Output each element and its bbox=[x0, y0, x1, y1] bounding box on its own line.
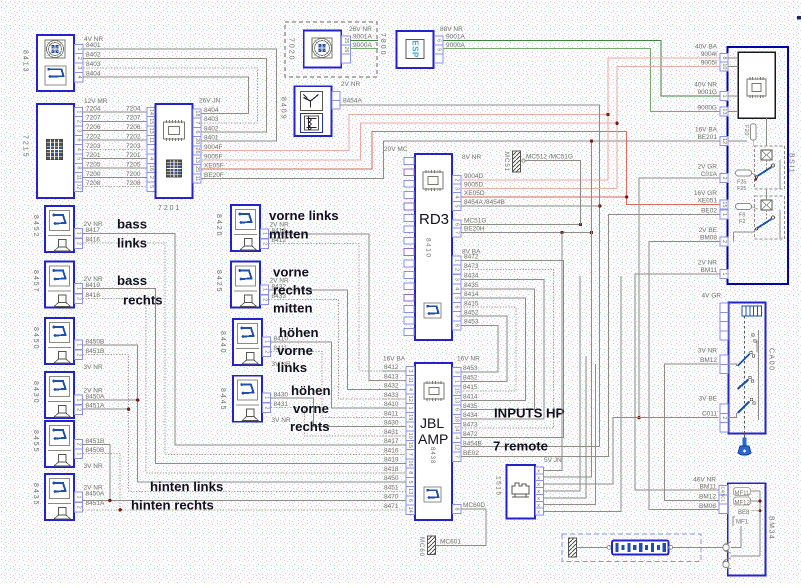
CA00 switch blades bbox=[738, 334, 757, 413]
7800 wire labels 88V NR bbox=[440, 26, 465, 49]
svg-text:16V BA: 16V BA bbox=[695, 127, 718, 134]
RD3 upper right wire labels bbox=[464, 173, 505, 233]
wire C01A bbox=[639, 178, 721, 418]
svg-text:3V NR: 3V NR bbox=[84, 463, 103, 470]
8409 pin strip bbox=[332, 92, 340, 110]
wire 8418 bbox=[83, 298, 407, 473]
svg-text:AMP: AMP bbox=[418, 431, 448, 447]
wire 8430 bbox=[271, 398, 407, 427]
svg-text:1: 1 bbox=[721, 94, 727, 97]
svg-text:8440: 8440 bbox=[219, 331, 226, 355]
wire 8451B hinten bbox=[83, 445, 110, 501]
svg-text:8431: 8431 bbox=[384, 429, 399, 436]
svg-text:4: 4 bbox=[407, 388, 413, 391]
8430 pin strip bbox=[75, 395, 83, 414]
svg-text:1: 1 bbox=[262, 232, 268, 235]
svg-text:C011: C011 bbox=[702, 411, 717, 418]
svg-text:8404: 8404 bbox=[204, 107, 219, 114]
speaker connector 8457 bbox=[45, 262, 74, 308]
svg-text:3: 3 bbox=[454, 187, 460, 190]
svg-text:BE201: BE201 bbox=[697, 134, 717, 141]
svg-text:8454A /8454B: 8454A /8454B bbox=[464, 199, 505, 206]
svg-text:1: 1 bbox=[76, 398, 82, 401]
svg-text:MF1: MF1 bbox=[736, 520, 749, 526]
svg-text:8403: 8403 bbox=[204, 116, 219, 123]
svg-text:F25: F25 bbox=[737, 186, 746, 192]
svg-text:2V GR: 2V GR bbox=[697, 164, 717, 171]
svg-text:8450: 8450 bbox=[384, 475, 399, 482]
7201 left pin strip bbox=[147, 107, 155, 191]
wire 8451A to amplifier 8471 bbox=[83, 509, 407, 511]
svg-text:links: links bbox=[277, 360, 307, 375]
svg-text:8452: 8452 bbox=[463, 375, 478, 382]
svg-text:8411: 8411 bbox=[384, 410, 398, 417]
svg-text:7204: 7204 bbox=[126, 105, 141, 112]
BSI relay 1 bbox=[755, 146, 785, 189]
svg-text:BM34: BM34 bbox=[768, 516, 775, 540]
svg-text:3V NR: 3V NR bbox=[272, 417, 291, 424]
wire 8431 bbox=[271, 408, 407, 436]
wire 8403 bbox=[83, 68, 258, 123]
svg-text:BM08: BM08 bbox=[700, 235, 717, 242]
8455 pin strip bbox=[75, 440, 83, 459]
8455 wire labels bbox=[84, 438, 105, 470]
svg-text:2: 2 bbox=[148, 176, 154, 179]
7201 right pin strip bbox=[193, 109, 201, 183]
JBL right wire labels bbox=[463, 365, 485, 509]
svg-text:8450A: 8450A bbox=[86, 394, 105, 401]
wire 8412 bbox=[269, 243, 407, 371]
svg-text:8450B: 8450B bbox=[86, 447, 105, 454]
svg-text:F2: F2 bbox=[739, 219, 745, 225]
wire MC60D to ground MC60 bbox=[436, 509, 486, 546]
svg-text:8455: 8455 bbox=[32, 430, 39, 454]
svg-text:7020: 7020 bbox=[288, 38, 295, 62]
8413 wire labels 4V NR bbox=[84, 36, 103, 77]
wire 8434 radio to amplifier bbox=[461, 279, 544, 419]
8435 wire labels bbox=[84, 485, 105, 508]
svg-text:9000A: 9000A bbox=[446, 42, 465, 49]
svg-text:8412: 8412 bbox=[384, 364, 399, 371]
wire 8402 bbox=[83, 58, 267, 132]
BSI internal ECU box bbox=[738, 52, 775, 118]
wire 8417 bbox=[83, 234, 407, 446]
svg-text:2V NR: 2V NR bbox=[341, 81, 360, 88]
ground MC51 bbox=[513, 151, 526, 172]
svg-text:6: 6 bbox=[436, 39, 442, 42]
svg-text:1: 1 bbox=[76, 47, 82, 50]
wire 9004 vertical to BSI and RD3 bbox=[608, 58, 721, 180]
svg-text:7206: 7206 bbox=[126, 124, 141, 131]
svg-text:8457: 8457 bbox=[32, 270, 39, 294]
BSI relay 2 bbox=[755, 196, 785, 239]
svg-text:8470: 8470 bbox=[384, 494, 399, 501]
svg-text:8414: 8414 bbox=[464, 291, 479, 298]
8420 pin strip bbox=[261, 229, 269, 249]
wire 9004D bbox=[461, 179, 608, 181]
amplifier JBL AMP 8438 bbox=[415, 363, 452, 520]
JBL left wire stubs bbox=[383, 371, 406, 473]
svg-text:5: 5 bbox=[454, 204, 460, 207]
46V NR header and labels bbox=[693, 477, 716, 511]
svg-text:8404: 8404 bbox=[86, 70, 101, 77]
svg-text:BE20H: BE20H bbox=[464, 226, 485, 233]
svg-text:12: 12 bbox=[454, 444, 460, 450]
svg-text:8402: 8402 bbox=[204, 126, 219, 133]
svg-text:5: 5 bbox=[407, 480, 413, 483]
svg-text:12: 12 bbox=[76, 184, 82, 190]
svg-text:2: 2 bbox=[76, 506, 82, 509]
7215 pin strip bbox=[75, 107, 83, 191]
svg-text:1515: 1515 bbox=[495, 476, 502, 496]
svg-text:13: 13 bbox=[148, 128, 154, 134]
svg-text:4: 4 bbox=[454, 287, 460, 290]
battery icon bbox=[612, 541, 669, 555]
wire stubs 8404-8401 at 7201 bbox=[201, 114, 225, 142]
wire 8454A/8454B row to RD3 bbox=[462, 205, 600, 207]
svg-text:2: 2 bbox=[76, 120, 82, 123]
svg-text:MF11: MF11 bbox=[735, 491, 751, 497]
svg-text:8453: 8453 bbox=[464, 319, 479, 326]
module 7800 ESP bbox=[396, 31, 433, 68]
svg-text:8: 8 bbox=[454, 324, 460, 327]
svg-text:8450A: 8450A bbox=[86, 491, 105, 498]
svg-text:4: 4 bbox=[148, 157, 154, 160]
svg-text:19: 19 bbox=[407, 414, 413, 420]
body controller BSI1 bbox=[727, 47, 788, 284]
svg-text:BM11: BM11 bbox=[700, 484, 717, 491]
speaker connector 8452 bbox=[45, 206, 74, 252]
svg-text:8: 8 bbox=[454, 507, 460, 510]
8445 wire labels bbox=[272, 392, 291, 425]
svg-text:7208: 7208 bbox=[86, 180, 101, 187]
svg-text:8453: 8453 bbox=[463, 365, 478, 372]
svg-text:8450B: 8450B bbox=[86, 339, 105, 346]
svg-text:vorne: vorne bbox=[277, 343, 313, 358]
svg-text:12: 12 bbox=[721, 138, 727, 144]
svg-text:8415: 8415 bbox=[463, 384, 478, 391]
fuses F25 bbox=[736, 170, 758, 192]
svg-text:8: 8 bbox=[721, 56, 727, 59]
svg-text:26: 26 bbox=[194, 147, 200, 153]
RD3 lower right wire labels bbox=[464, 254, 479, 326]
module 8409 antenna amplifier bbox=[295, 86, 332, 136]
svg-text:BM11: BM11 bbox=[701, 267, 718, 274]
svg-text:12: 12 bbox=[407, 396, 413, 402]
svg-text:6: 6 bbox=[454, 408, 460, 411]
svg-text:8420: 8420 bbox=[215, 214, 222, 238]
svg-text:8445: 8445 bbox=[219, 388, 226, 412]
wire 8419 bbox=[83, 289, 407, 464]
JBL left pin strip bbox=[406, 366, 415, 514]
svg-text:8432: 8432 bbox=[384, 383, 399, 390]
wire 8415 radio to amplifier bbox=[461, 307, 516, 391]
svg-text:4: 4 bbox=[76, 76, 82, 79]
fuse F20 bbox=[743, 124, 756, 146]
8435 pin strip bbox=[75, 492, 83, 512]
svg-text:6: 6 bbox=[407, 499, 413, 502]
battery dashed enclosure bbox=[562, 534, 701, 562]
CA00 middle pin strip BM12 bbox=[698, 348, 728, 374]
svg-text:11: 11 bbox=[407, 377, 413, 383]
svg-text:7200: 7200 bbox=[86, 171, 101, 178]
svg-text:8402: 8402 bbox=[86, 52, 101, 59]
svg-text:7: 7 bbox=[454, 455, 460, 458]
7020 pin strip bbox=[342, 36, 351, 63]
svg-text:XE05D: XE05D bbox=[464, 190, 485, 197]
svg-text:vorne: vorne bbox=[293, 401, 329, 416]
svg-text:7 remote: 7 remote bbox=[493, 439, 548, 454]
8457 wire labels bbox=[84, 276, 103, 299]
svg-text:MC60: MC60 bbox=[418, 537, 424, 557]
svg-text:9005D: 9005D bbox=[464, 182, 483, 189]
wire BE02 BSI to amplifier bbox=[462, 215, 721, 457]
wire 8414 radio to amplifier bbox=[461, 298, 526, 400]
8413 pin strip bbox=[75, 44, 84, 82]
wire 8410 bbox=[271, 342, 407, 408]
svg-text:JBL: JBL bbox=[420, 415, 444, 431]
svg-text:8454A: 8454A bbox=[343, 98, 362, 105]
svg-text:1: 1 bbox=[721, 213, 727, 216]
svg-text:1: 1 bbox=[262, 288, 268, 291]
svg-text:8417: 8417 bbox=[86, 227, 101, 234]
BM34 fuses MF11 MF12 bbox=[731, 488, 762, 557]
svg-text:C4(5C1: C4(5C1 bbox=[721, 487, 726, 503]
svg-text:2V BE: 2V BE bbox=[699, 227, 718, 234]
svg-text:8431: 8431 bbox=[274, 401, 289, 408]
8440 wire labels bbox=[272, 336, 291, 369]
svg-text:8417: 8417 bbox=[384, 438, 399, 445]
svg-text:7: 7 bbox=[407, 453, 413, 456]
svg-text:9004D: 9004D bbox=[464, 173, 483, 180]
svg-text:MC601: MC601 bbox=[440, 539, 461, 546]
wire 8454A bbox=[340, 105, 600, 447]
svg-text:13: 13 bbox=[454, 397, 460, 403]
svg-text:BM08: BM08 bbox=[699, 503, 716, 510]
svg-text:15: 15 bbox=[407, 442, 413, 448]
8450 wire labels bbox=[84, 339, 105, 372]
svg-text:rechts: rechts bbox=[273, 283, 313, 298]
svg-text:8451: 8451 bbox=[384, 484, 399, 491]
svg-text:8434: 8434 bbox=[464, 273, 479, 280]
wire BE20 vertical to BE20H and 1515 bbox=[545, 141, 592, 477]
svg-text:RD3: RD3 bbox=[419, 211, 449, 228]
svg-text:7208: 7208 bbox=[126, 180, 141, 187]
wire 8450B hinten bbox=[83, 454, 121, 510]
svg-text:höhen: höhen bbox=[279, 325, 319, 340]
svg-text:7201: 7201 bbox=[126, 152, 141, 159]
svg-text:1: 1 bbox=[76, 232, 82, 235]
svg-text:3V BE: 3V BE bbox=[699, 396, 718, 403]
svg-text:8418: 8418 bbox=[86, 292, 101, 299]
8440 pin strip bbox=[263, 337, 271, 357]
svg-text:8V NR: 8V NR bbox=[462, 154, 481, 161]
8452 wire labels bbox=[84, 221, 103, 244]
svg-text:1: 1 bbox=[76, 287, 82, 290]
svg-text:8450: 8450 bbox=[32, 327, 39, 351]
label bass links bbox=[117, 208, 565, 513]
connector 7020 bbox=[304, 31, 342, 68]
svg-text:9001A: 9001A bbox=[446, 34, 465, 41]
svg-text:8416: 8416 bbox=[384, 447, 399, 454]
svg-text:8471: 8471 bbox=[384, 503, 399, 510]
svg-text:8403: 8403 bbox=[86, 61, 101, 68]
svg-text:5V JN: 5V JN bbox=[544, 457, 562, 464]
CA00 dashed key axis bbox=[744, 316, 746, 437]
svg-text:2: 2 bbox=[264, 350, 270, 353]
svg-text:25: 25 bbox=[194, 166, 200, 172]
svg-text:7202: 7202 bbox=[126, 133, 141, 140]
wire 9001A bbox=[444, 40, 721, 96]
connector 7215 bbox=[37, 104, 74, 198]
svg-text:8472: 8472 bbox=[463, 431, 478, 438]
svg-text:7215: 7215 bbox=[22, 135, 29, 159]
svg-text:26V NR: 26V NR bbox=[349, 26, 372, 33]
svg-text:7: 7 bbox=[148, 148, 154, 151]
svg-text:10: 10 bbox=[721, 63, 727, 69]
plot corner mark bbox=[797, 16, 801, 20]
svg-text:8452: 8452 bbox=[464, 309, 479, 316]
svg-text:26: 26 bbox=[343, 47, 349, 53]
svg-text:13: 13 bbox=[194, 157, 200, 163]
svg-text:1: 1 bbox=[407, 406, 413, 409]
svg-text:XE051: XE051 bbox=[697, 198, 717, 205]
BM34 battery terminal bbox=[723, 542, 731, 569]
8425 pin strip bbox=[261, 285, 269, 305]
wire 8450A to amplifier 8470 bbox=[83, 500, 407, 502]
svg-text:links: links bbox=[117, 236, 147, 251]
wire MC512/MC51G bbox=[525, 161, 580, 225]
svg-text:6: 6 bbox=[194, 131, 200, 134]
svg-text:8401: 8401 bbox=[204, 135, 219, 142]
svg-text:9001A: 9001A bbox=[353, 34, 372, 41]
svg-text:2: 2 bbox=[76, 408, 82, 411]
svg-text:15: 15 bbox=[721, 201, 727, 207]
wire 9000A bbox=[444, 49, 721, 112]
svg-text:7204: 7204 bbox=[86, 105, 101, 112]
svg-text:20: 20 bbox=[194, 138, 200, 144]
svg-text:7: 7 bbox=[454, 231, 460, 234]
svg-text:2: 2 bbox=[262, 242, 268, 245]
battery wire to BM34 bbox=[669, 545, 723, 549]
wire BE20H bbox=[461, 232, 592, 234]
svg-text:10: 10 bbox=[407, 433, 413, 439]
svg-text:9: 9 bbox=[436, 48, 442, 51]
svg-text:8454B: 8454B bbox=[463, 440, 482, 447]
svg-text:F20: F20 bbox=[743, 125, 749, 136]
svg-text:3: 3 bbox=[454, 278, 460, 281]
fuses F5 F2 bbox=[736, 204, 758, 226]
svg-text:8434: 8434 bbox=[463, 412, 478, 419]
svg-text:6: 6 bbox=[76, 138, 82, 141]
svg-text:4: 4 bbox=[454, 436, 460, 439]
wire BM12 bbox=[664, 364, 718, 500]
svg-text:14: 14 bbox=[407, 507, 413, 513]
svg-text:INPUTS HP: INPUTS HP bbox=[494, 406, 565, 421]
svg-text:8435: 8435 bbox=[463, 403, 478, 410]
svg-text:6: 6 bbox=[454, 223, 460, 226]
svg-text:7205: 7205 bbox=[126, 161, 141, 168]
wire 8451B bbox=[83, 355, 407, 492]
svg-text:26V JN: 26V JN bbox=[199, 98, 221, 105]
CA00 top pin strip bbox=[720, 303, 728, 340]
svg-text:7: 7 bbox=[194, 121, 200, 124]
svg-text:8425: 8425 bbox=[215, 270, 222, 294]
1515 pin strip bbox=[536, 467, 544, 516]
svg-text:40V BA: 40V BA bbox=[695, 44, 718, 51]
svg-text:hinten rechts: hinten rechts bbox=[131, 498, 214, 513]
JBL right pin strip bbox=[453, 367, 461, 513]
7020 wire labels 26V NR bbox=[349, 26, 372, 49]
svg-text:8414: 8414 bbox=[463, 393, 478, 400]
battery ground hatch bbox=[569, 538, 577, 557]
svg-text:MC60D: MC60D bbox=[463, 502, 485, 509]
svg-text:16V GR: 16V GR bbox=[694, 190, 717, 197]
svg-text:9000A: 9000A bbox=[353, 42, 372, 49]
svg-text:2: 2 bbox=[76, 242, 82, 245]
svg-text:9001G: 9001G bbox=[697, 89, 717, 96]
svg-text:8430: 8430 bbox=[274, 392, 289, 399]
svg-text:5: 5 bbox=[454, 296, 460, 299]
svg-text:8430: 8430 bbox=[384, 420, 399, 427]
speaker connector 8445 bbox=[233, 376, 262, 422]
svg-text:8415: 8415 bbox=[464, 300, 479, 307]
speaker connector 8430 bbox=[45, 372, 74, 418]
svg-text:8418: 8418 bbox=[384, 466, 399, 473]
speaker connector 8440 bbox=[233, 319, 262, 365]
svg-text:18: 18 bbox=[194, 110, 200, 116]
svg-text:MC512 /MC51G: MC512 /MC51G bbox=[526, 154, 573, 161]
connector 8413 bbox=[37, 35, 74, 91]
7800 pin strip bbox=[434, 36, 443, 63]
BM34 pin strip bbox=[719, 486, 728, 514]
svg-text:9004F: 9004F bbox=[204, 144, 222, 151]
svg-text:2: 2 bbox=[264, 406, 270, 409]
svg-text:9005F: 9005F bbox=[204, 153, 222, 160]
svg-text:8413: 8413 bbox=[22, 50, 29, 74]
svg-text:9000G: 9000G bbox=[697, 105, 717, 112]
svg-text:11: 11 bbox=[194, 176, 200, 182]
svg-text:vorne links: vorne links bbox=[269, 208, 339, 223]
svg-text:2V NR: 2V NR bbox=[698, 259, 717, 266]
svg-text:7205: 7205 bbox=[86, 161, 101, 168]
wire 8432 bbox=[269, 290, 407, 390]
wire C011 row bbox=[613, 418, 719, 484]
svg-text:3: 3 bbox=[76, 66, 82, 69]
wire 8433 bbox=[269, 299, 407, 398]
svg-text:8433: 8433 bbox=[384, 392, 399, 399]
svg-text:CA00: CA00 bbox=[768, 348, 775, 372]
svg-text:13: 13 bbox=[407, 488, 413, 494]
svg-text:2: 2 bbox=[407, 425, 413, 428]
svg-text:3V NR: 3V NR bbox=[84, 364, 103, 371]
svg-text:8451B: 8451B bbox=[86, 348, 105, 355]
wire 9000A stub from 7020 bbox=[351, 48, 379, 50]
battery cable bbox=[577, 545, 613, 549]
svg-text:8435: 8435 bbox=[464, 282, 479, 289]
svg-text:8430: 8430 bbox=[32, 381, 39, 405]
svg-text:8438: 8438 bbox=[429, 447, 435, 464]
battery unit BM34 bbox=[728, 483, 766, 575]
svg-text:6: 6 bbox=[454, 306, 460, 309]
svg-text:2: 2 bbox=[454, 268, 460, 271]
8420 wire labels bbox=[270, 221, 289, 244]
svg-text:BE8: BE8 bbox=[738, 510, 750, 516]
wire 8411 bbox=[271, 352, 407, 418]
module 7020 dashed enclosure bbox=[285, 22, 377, 77]
svg-text:14: 14 bbox=[454, 425, 460, 431]
svg-text:5: 5 bbox=[148, 185, 154, 188]
